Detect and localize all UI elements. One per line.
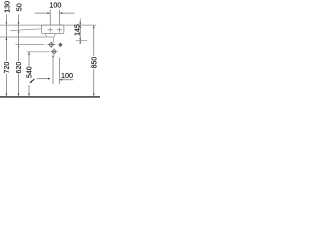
arrow V2 up at tap line [18,30,19,33]
wire tap-height line 800 level [10,29,41,31]
extension line B [58,58,60,85]
dimension line V3 540 [28,52,30,94]
crosshair C1b small supply connection right [58,43,63,48]
arrow V2 down at floor [18,94,19,97]
dimension line 145 [79,19,81,44]
background [0,0,100,100]
floor line [0,96,100,98]
arrow 145 up below rim [80,25,81,28]
arrow V2 down at rim [18,22,19,25]
svg-text:130: 130 [3,1,12,13]
dimension 100 top extension right [59,10,61,25]
svg-text:540: 540 [27,66,34,78]
svg-text:50: 50 [14,3,23,11]
arrow V3 down at floor [28,94,29,97]
wire 720 level line [0,36,54,38]
arrow 145 up below lower line [79,41,81,44]
diagonal leader arrow near V3 [31,79,35,82]
wire 620 level line [16,44,45,46]
arrow V3 up at 540 line [28,52,29,55]
dimension 100 top left arrow [35,12,48,14]
svg-text:620: 620 [16,62,23,74]
wire right lower reference line [76,40,87,42]
arrow 850 down at floor [93,94,94,97]
siphon trapezoid below basin [45,34,55,37]
fixing hole right cross [57,27,63,32]
dimension line 850 [93,25,95,94]
wire 540 level line [27,51,50,53]
svg-text:850: 850 [92,57,99,69]
crosshair C1 supply connection [47,42,55,48]
dimension line V2 50/620 [18,15,20,95]
svg-text:720: 720 [4,62,11,74]
arrow V1 down at floor [6,94,7,97]
arrow 145 down above lower line [80,38,81,41]
dimension 100 bottom left arrow [37,78,48,80]
dimension 100 top right arrow [62,12,74,14]
arrow V1 down at rim [6,22,7,25]
arrow A up at drain [52,54,53,57]
drain stub line [52,37,54,43]
svg-text:100: 100 [49,0,61,9]
dimension 100 top extension left [49,10,51,25]
arrow 850 up at rim [93,25,94,28]
svg-text:100: 100 [61,71,73,80]
arrow 145 down above rim [79,22,81,25]
wire rim reference line 850 level [0,24,96,26]
dimension line V1 130/720 [5,14,7,94]
centerline A below drain [52,57,54,85]
basin outline (back view) [42,25,64,33]
dimension 100 bottom right arrow [62,79,74,81]
crosshair C2 drain connection [51,49,58,55]
fixing hole left cross [48,27,54,32]
arrow V2 up at 620 line [18,45,19,48]
arrow V1 up at 720 line [6,37,7,40]
